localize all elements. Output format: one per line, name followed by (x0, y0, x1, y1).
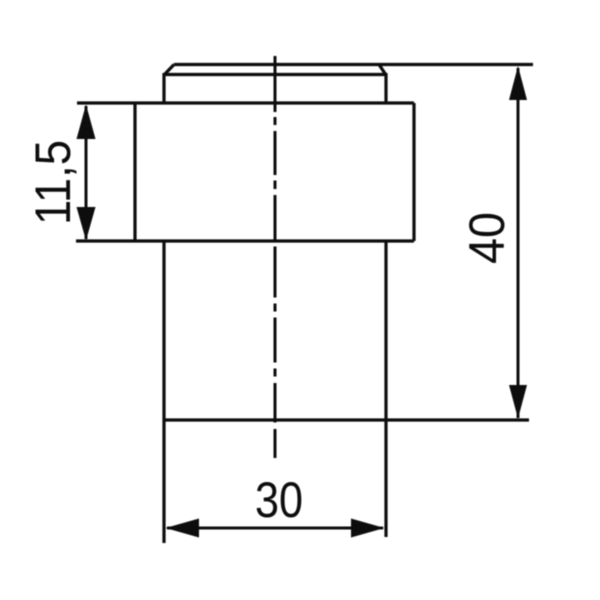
flange bottom edge + 11,5-dim bottom extension line (76, 239, 414, 242)
flange left edge (133, 103, 136, 241)
flange top edge + 11,5-dim top extension line (77, 101, 414, 104)
svg-text:40: 40 (459, 212, 515, 264)
cap right side (384, 73, 387, 103)
flange right edge (412, 103, 415, 241)
cap left chamfer (164, 65, 174, 76)
11,5 dimension line (85, 106, 88, 239)
body bottom edge + 40-dim bottom extension line (164, 418, 529, 421)
svg-text:30: 30 (255, 472, 303, 528)
body left edge + 30-dim left extension line (162, 241, 165, 543)
30 dimension line (167, 527, 383, 530)
cap top front edge (164, 73, 386, 76)
cap top back edge + 40-dim top extension line (174, 63, 533, 66)
cap left side (162, 73, 165, 103)
30 dim arrowhead right (351, 519, 385, 538)
40 dimension line (517, 68, 520, 418)
centerline (dash-dot) (274, 56, 277, 458)
11,5 dim arrowhead down (77, 207, 96, 241)
11,5 dim arrowhead up (77, 105, 96, 140)
svg-text:11,5: 11,5 (25, 140, 81, 225)
body right edge + 30-dim right extension line (384, 241, 387, 537)
cap right chamfer (379, 65, 386, 76)
40 dim arrowhead up (509, 66, 527, 100)
30 dim arrowhead left (166, 519, 200, 538)
40 dim arrowhead down (509, 385, 527, 419)
